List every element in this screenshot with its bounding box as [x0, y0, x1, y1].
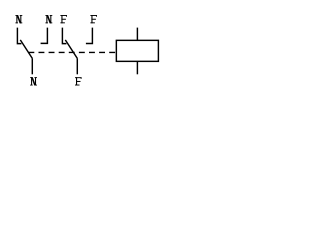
wire: moving contact arm of contact 2 [65, 40, 77, 59]
wire: common pole lead of contact 1 (node N) [31, 58, 33, 74]
relay coil box [116, 40, 158, 61]
wire: moving contact arm of contact 1 [20, 40, 32, 59]
wire: common pole lead of contact 2 (node F) [76, 58, 78, 74]
label F (common pole of contact 2) [75, 77, 82, 85]
wire: left throw terminal lead of contact 2 (node F) [62, 28, 66, 44]
label N (top terminal of changeover contact 1) [15, 15, 22, 23]
label F (top terminal of changeover contact 2) [60, 15, 67, 23]
wire: left throw terminal lead of contact 1 (node N) [17, 28, 21, 44]
label F (right throw terminal of contact 2) [90, 15, 97, 23]
label N (right throw terminal of contact 1) [45, 15, 52, 23]
dashed mechanical linkage between contacts and relay coil [28, 51, 115, 53]
wire: right throw terminal lead of contact 2 (node F) [86, 28, 93, 44]
label N (common pole of contact 1) [30, 77, 37, 85]
wire: relay coil top lead [136, 28, 138, 41]
wire: right throw terminal lead of contact 1 (node N) [41, 28, 48, 44]
wire: relay coil bottom lead [136, 61, 138, 74]
